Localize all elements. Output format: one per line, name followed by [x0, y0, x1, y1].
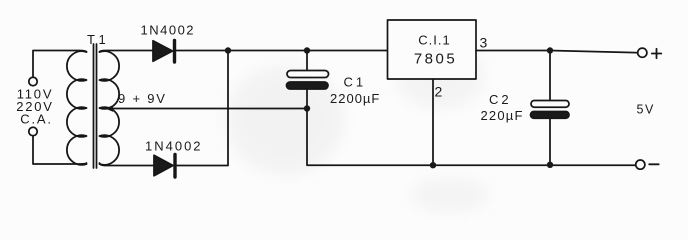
wire regulator pin 2 to 0V	[432, 80, 434, 166]
diode D1 1N4002 (top)	[153, 41, 173, 61]
wire 0V rail down and right (bottom rail)	[307, 109, 636, 166]
junction pin2 on bottom rail	[430, 162, 436, 168]
svg-text:2: 2	[435, 84, 444, 100]
svg-text:T1: T1	[87, 32, 109, 47]
svg-text:220µF: 220µF	[481, 108, 524, 123]
junction C2 top	[547, 47, 553, 53]
plus sign	[652, 49, 662, 58]
wire regulator output pin 3	[476, 51, 638, 53]
terminal input upper	[29, 77, 37, 85]
capacitor C2 lead top	[549, 51, 551, 101]
junction C1 top	[304, 47, 310, 53]
capacitor C2 lead bottom	[549, 118, 551, 165]
center tap arrow	[105, 105, 113, 111]
transformer T1 core	[94, 44, 97, 168]
capacitor C1 lead bottom	[306, 89, 308, 109]
transformer T1 secondary winding	[100, 51, 120, 165]
wire D1 cathode to regulator input	[177, 50, 388, 52]
wire secondary bottom to diode D2	[100, 163, 154, 166]
capacitor C1 bottom plate	[287, 82, 329, 89]
wire D2 cathode up to positive node	[177, 51, 229, 166]
transformer T1 primary winding	[67, 51, 87, 165]
terminal output negative	[636, 160, 645, 169]
capacitor C2 bottom plate	[531, 112, 570, 119]
diode D2 1N4002 (bottom)	[154, 155, 173, 175]
regulator U1 box	[388, 20, 477, 79]
junction C2 bottom	[547, 162, 553, 168]
svg-text:C.I.1: C.I.1	[418, 33, 450, 48]
svg-text:C1: C1	[344, 75, 367, 90]
svg-text:3: 3	[480, 35, 489, 51]
svg-text:7805: 7805	[414, 51, 457, 68]
stray mark	[404, 26, 406, 28]
capacitor C1 lead top	[306, 51, 308, 71]
junction rectifier output node	[225, 47, 231, 53]
wire secondary top to diode D1	[100, 51, 153, 53]
svg-text:1N4002: 1N4002	[141, 23, 196, 38]
minus sign	[649, 163, 659, 165]
terminal output positive	[638, 48, 647, 57]
wire center tap 0V rail	[111, 108, 307, 110]
svg-text:5V: 5V	[637, 103, 655, 117]
junction C1 bottom on 0V rail	[304, 105, 310, 111]
wire primary top (input to T1 primary)	[33, 51, 87, 78]
wire primary bottom	[33, 136, 87, 164]
svg-text:9 + 9V: 9 + 9V	[118, 91, 167, 106]
svg-text:C.A.: C.A.	[20, 112, 52, 127]
capacitor C2 top plate	[531, 101, 569, 108]
svg-text:C2: C2	[489, 92, 512, 107]
svg-text:2200µF: 2200µF	[330, 91, 380, 106]
terminal input lower	[29, 127, 37, 135]
capacitor C1 top plate	[287, 71, 329, 78]
svg-text:1N4002: 1N4002	[145, 139, 203, 154]
